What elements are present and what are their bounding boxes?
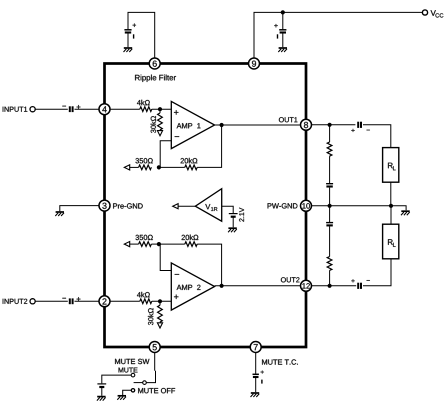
capacitor C3 (input coupling) (62, 105, 80, 112)
node F (zobel junction) (328, 204, 332, 208)
capacitor C8 (OUT2 coupling) (351, 279, 369, 289)
resistor R6 20k (185, 242, 197, 247)
wire INPUT1 to C3 (35, 108, 67, 110)
pin 3 (99, 200, 110, 211)
label MUTE (119, 368, 138, 373)
capacitor C10 (mute t.c.) (253, 371, 264, 384)
terminal Vcc (422, 10, 427, 15)
wire arrow to R5 (130, 243, 139, 245)
label MUTE OFF (138, 388, 175, 393)
IC block outline (105, 64, 307, 348)
wire pin5 down (146, 352, 155, 382)
label OUT2 (281, 277, 300, 282)
wire node A to R2 (159, 109, 161, 113)
terminal INPUT1 (30, 107, 35, 112)
label PW-GND (268, 203, 298, 208)
ground (C2) (278, 48, 287, 52)
resistor RL2 (383, 224, 399, 259)
wire C9 to ground (101, 387, 103, 396)
resistor R2 30k (158, 113, 163, 130)
switch contact MUTE OFF (131, 389, 134, 392)
capacitor C6 (zobel1) (326, 184, 333, 187)
label 20k R6 (182, 235, 199, 241)
wire node D to R8 (159, 301, 161, 305)
pin 10 (301, 200, 312, 211)
arrow to Vref (R8) (157, 323, 162, 328)
arrow to Vref (R2) (157, 131, 162, 136)
capacitor C7 (zobel2) (326, 223, 333, 226)
label 4k R7 (137, 292, 150, 297)
wire feedback down (197, 125, 221, 167)
capacitor C2 (Vcc decoupling) (274, 24, 286, 39)
wire MUTE contact to C9 (102, 375, 131, 383)
wire C8 to pin12 (311, 285, 356, 287)
wire R3 to node B (159, 166, 185, 168)
node D (AMP2 + input) (158, 299, 162, 303)
capacitor C4 (input coupling) (62, 297, 80, 304)
wire pin9 to Vcc rail (254, 12, 422, 58)
ground (PW-GND) (401, 211, 410, 215)
wire pin6 to C1 (128, 12, 155, 58)
ground (C1) (124, 48, 133, 52)
resistor R5 350 (139, 242, 152, 247)
pin 9 (249, 58, 260, 69)
node H (zobel2 tap) (328, 284, 332, 288)
wire C3 to pin4 (75, 108, 100, 110)
wire node F to C7 (329, 206, 331, 222)
wire R7 to AMP2 (152, 300, 172, 302)
label Vcc (431, 10, 444, 17)
pin 5 (149, 342, 160, 353)
terminal INPUT2 (30, 299, 35, 304)
node AMP2 output (220, 284, 224, 288)
node B (fb junction) (157, 165, 161, 169)
wire battery to ground (232, 217, 234, 227)
resistor R3 20k (185, 165, 197, 170)
arrow to Vref (R5) (124, 242, 129, 247)
pin 8 (301, 119, 312, 130)
op-amp AMP1 (171, 101, 214, 148)
pin 7 (250, 342, 261, 353)
label Pre-GND (113, 203, 143, 208)
capacitor C9 (mute) (97, 384, 106, 387)
resistor R4 350 (139, 165, 152, 170)
node C (fb junction 2) (157, 242, 161, 246)
label MUTE SW (115, 359, 149, 364)
wire pin4 to R1 (110, 108, 140, 110)
wire node G to RL2 (390, 206, 392, 224)
battery 2.1V (229, 214, 238, 217)
pin 12 (301, 280, 312, 291)
label 350 R5 (136, 235, 153, 240)
label 20k R3 (181, 158, 198, 164)
node A (AMP1 + input) (158, 107, 162, 111)
wire node C to R6 (159, 243, 185, 245)
wire R9 to C6 (329, 156, 331, 183)
node AMP1 feedback tap (220, 123, 224, 127)
switch arm (134, 382, 143, 384)
label 30k R8 (148, 308, 153, 325)
capacitor C1 (ripple filter) (124, 24, 136, 39)
wire INPUT2 to C4 (35, 300, 67, 302)
wire pin2 to R7 (110, 300, 140, 302)
wire R5 to node C (151, 243, 159, 245)
wire pin8 node to R9 (329, 125, 331, 142)
wire R6 down to AMP2 out (197, 244, 221, 286)
wire pin7 down (255, 352, 257, 373)
wire C1 to ground (127, 33, 129, 47)
resistor R10 (zobel2) (327, 257, 332, 271)
label 350 R4 (136, 158, 153, 163)
ground (C10) (251, 393, 260, 397)
wire MUTE OFF to ground (123, 390, 132, 395)
resistor R8 30k (158, 305, 163, 322)
label MUTE T.C. (262, 359, 298, 364)
wire junction to C2 (282, 12, 284, 29)
wire RL2 to C8 (363, 259, 391, 286)
wire arrow to V1R buffer (178, 205, 195, 207)
capacitor C5 (OUT1 coupling) (351, 122, 369, 132)
wire C2 to ground (282, 33, 284, 47)
wire C6 to PW-GND rail (329, 188, 331, 206)
label OUT1 (279, 117, 298, 122)
wire node C to AMP2 - (160, 244, 171, 270)
switch contact MUTE (131, 373, 135, 377)
pin 2 (99, 296, 110, 307)
label INPUT2 (3, 299, 28, 304)
wire C7 to R10 (329, 227, 331, 257)
label INPUT1 (3, 107, 28, 112)
label 4k R1 (137, 100, 150, 105)
wire AMP1 out to pin8 (215, 124, 301, 126)
wire C5 to RL1 (363, 125, 391, 148)
wire pin3 to ground (60, 206, 99, 212)
node Vcc-C2 junction (281, 10, 285, 14)
wire pin10 right (311, 206, 406, 211)
wire R10 to OUT2 row (329, 271, 331, 286)
arrow to Vref (R4) (124, 165, 129, 170)
wire V1R to battery (222, 206, 234, 213)
resistor RL1 (383, 148, 399, 183)
wire R1 to AMP1 (152, 108, 172, 110)
label 2.1V (239, 208, 244, 222)
resistor R1 4k (140, 107, 152, 112)
buffer V1R (195, 189, 221, 222)
arrow Vref out (173, 204, 178, 209)
wire RL1 to PW-GND rail (390, 182, 392, 206)
wire pin8 right (311, 124, 355, 126)
wire AMP2 out to pin12 (215, 285, 301, 287)
resistor R7 4k (140, 299, 152, 304)
label 30k R2 (151, 116, 156, 133)
wire C10 to ground (255, 377, 257, 392)
label Ripple Filter (135, 75, 176, 82)
resistor R9 (zobel1) (327, 142, 332, 156)
pin 6 (149, 58, 160, 69)
wire C4 to pin2 (75, 300, 100, 302)
op-amp AMP2 (171, 263, 214, 310)
pin 4 (99, 104, 110, 115)
node G (RL junction) (389, 204, 393, 208)
wire R4 to arrow (130, 166, 139, 168)
switch pole contact (143, 381, 147, 385)
ground (MUTE OFF) (117, 396, 126, 400)
wire node B to AMP1 - (160, 141, 171, 168)
ground (C9) (97, 397, 106, 401)
ground (V1R) (228, 228, 237, 232)
node E (zobel1 tap) (328, 123, 332, 127)
ground (Pre-GND) (55, 212, 64, 216)
